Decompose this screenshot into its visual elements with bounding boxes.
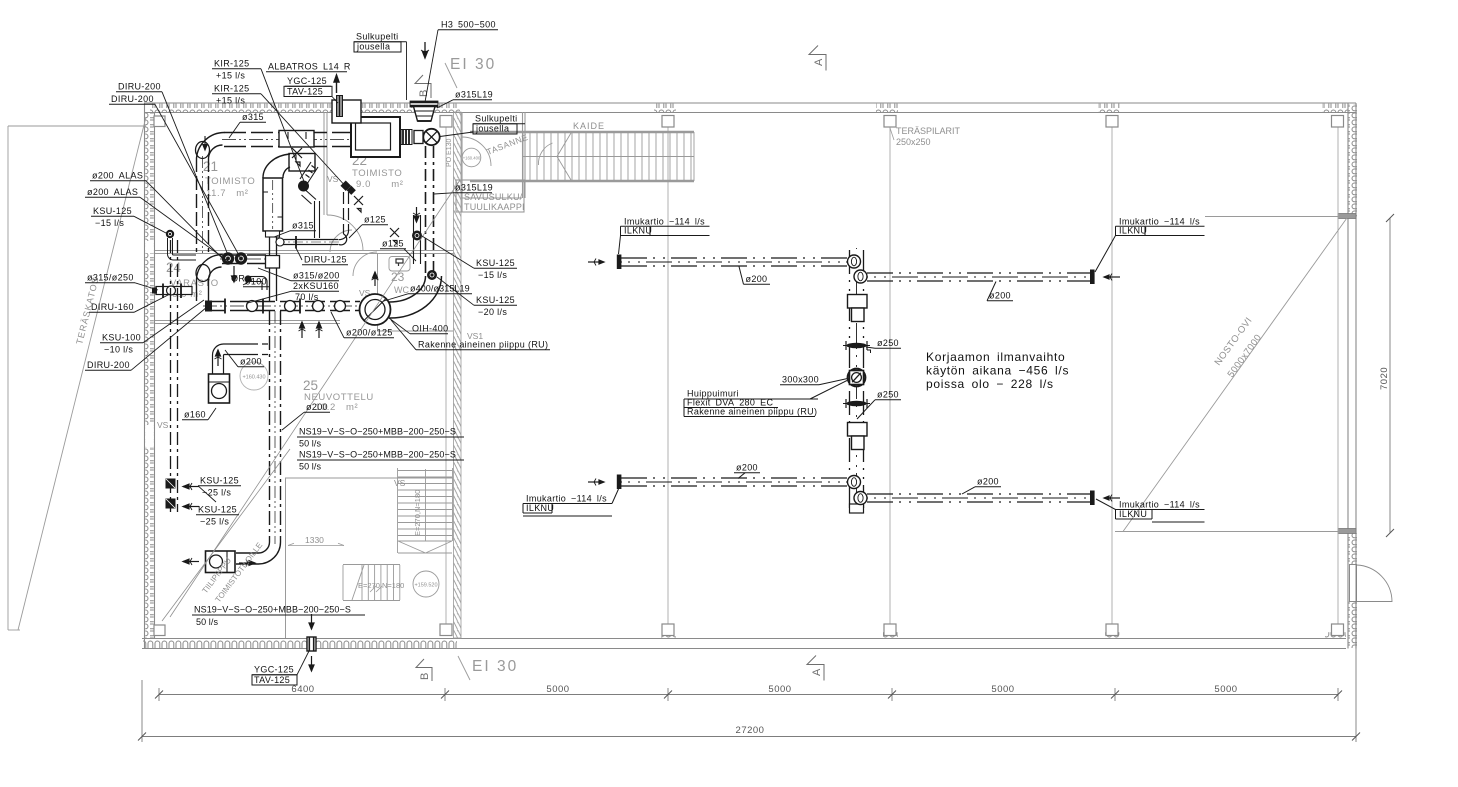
svg-text:−20 l/s: −20 l/s <box>478 307 507 317</box>
svg-text:2xKSU160: 2xKSU160 <box>293 281 339 291</box>
svg-text:50 l/s: 50 l/s <box>299 439 322 449</box>
dimension row1 line <box>159 688 1338 701</box>
ygc duct bottom crossing <box>307 637 316 651</box>
duct H2 horizontal upper <box>220 255 266 264</box>
svg-text:ø200: ø200 <box>736 463 758 473</box>
label o200/o125 <box>331 312 394 338</box>
label YGC TAV bottom <box>252 651 309 685</box>
dimension row2 <box>142 563 1356 742</box>
label 300x300 <box>780 375 848 385</box>
svg-text:Sulkupelti: Sulkupelti <box>475 114 518 124</box>
svg-text:5000: 5000 <box>991 684 1014 695</box>
elbow into big silencer <box>263 154 290 178</box>
label YGC TAV top <box>284 76 338 103</box>
label o315 top <box>229 112 266 138</box>
damper x symbols <box>292 148 399 244</box>
taper piece <box>266 256 280 269</box>
svg-text:A: A <box>811 668 823 676</box>
label ALBATROS <box>266 62 351 72</box>
korjaamon text block <box>926 350 1069 391</box>
label sulkupelti top <box>354 32 407 101</box>
svg-text:TAV-125: TAV-125 <box>287 87 323 97</box>
svg-text:−25 l/s: −25 l/s <box>202 488 231 498</box>
branch box below H1 <box>289 154 315 172</box>
svg-text:5000: 5000 <box>546 684 569 695</box>
o100 duct small <box>250 277 267 291</box>
columns top <box>154 116 1344 128</box>
elbow R5 bottom <box>339 231 349 245</box>
R4 elbow bottom <box>236 542 281 564</box>
left risers twin <box>171 240 178 512</box>
svg-text:OR: OR <box>231 274 245 284</box>
marker B top <box>415 75 431 98</box>
stair treads <box>523 132 694 181</box>
svg-text:ø200: ø200 <box>306 402 328 412</box>
airflow arrow lower-right <box>1104 495 1120 502</box>
label DIRU-200 b <box>109 94 240 257</box>
kir valve mid <box>298 181 309 192</box>
silencer upper <box>848 295 868 309</box>
svg-text:ø315/ø250: ø315/ø250 <box>87 273 134 283</box>
grid line 1112 <box>1111 127 1113 624</box>
label o315L19 mid <box>434 183 493 195</box>
svg-text:+160.430: +160.430 <box>242 375 265 381</box>
svg-text:ø315L19: ø315L19 <box>455 183 493 193</box>
marker A bottom <box>807 656 824 681</box>
big elbow to OIH <box>389 276 442 318</box>
svg-text:TOIMISTO: TOIMISTO <box>352 168 402 179</box>
label o250 lower <box>857 390 901 420</box>
label o200 equip <box>225 350 264 367</box>
roof down arrow top <box>421 42 429 58</box>
label OIH-400 <box>389 318 448 334</box>
svg-text:21: 21 <box>203 159 218 174</box>
svg-text:ø200: ø200 <box>746 274 768 284</box>
svg-text:TUULIKAAPPI: TUULIKAAPPI <box>464 202 525 212</box>
level circle 160.430 <box>240 362 268 390</box>
svg-text:300x300: 300x300 <box>782 375 819 385</box>
svg-text:VS: VS <box>327 174 339 184</box>
supply fan circle <box>423 129 439 145</box>
label NS19 a <box>297 427 464 449</box>
svg-text:ø200 ALAS: ø200 ALAS <box>92 171 143 181</box>
label H3 500-500 <box>425 20 498 103</box>
svg-text:ø315: ø315 <box>292 221 314 231</box>
svg-text:VS: VS <box>394 478 406 488</box>
room 23 label <box>391 270 409 295</box>
label KSU-125 -15 right <box>422 236 517 280</box>
label KSU-125 -20 <box>437 277 517 317</box>
svg-text:jousella: jousella <box>475 124 509 134</box>
svg-text:+15 l/s: +15 l/s <box>216 71 245 81</box>
striped branch duct <box>300 162 318 184</box>
svg-text:A: A <box>813 58 825 66</box>
label imukartio lower-right <box>1096 499 1205 522</box>
duct riser R2 from fan <box>426 146 434 277</box>
svg-text:jousella: jousella <box>356 42 390 52</box>
svg-text:DIRU-160: DIRU-160 <box>91 302 134 312</box>
airflow arrow upper-left <box>588 259 604 266</box>
svg-text:ø160: ø160 <box>184 410 206 420</box>
damper upper <box>847 343 867 349</box>
svg-text:ILKNU: ILKNU <box>1119 226 1147 236</box>
svg-text:−15 l/s: −15 l/s <box>478 270 507 280</box>
svg-text:70 l/s: 70 l/s <box>295 292 319 302</box>
H3 fittings <box>205 299 346 314</box>
tap circle on stack <box>276 238 284 246</box>
svg-text:H3 500−500: H3 500−500 <box>441 20 496 30</box>
duct end cap upper-right <box>1090 270 1095 285</box>
svg-text:−25 l/s: −25 l/s <box>200 517 229 527</box>
ygc arrows <box>309 614 314 671</box>
fan box bottom <box>206 551 236 573</box>
svg-text:ø125: ø125 <box>364 215 386 225</box>
svg-text:E=270,N=180: E=270,N=180 <box>413 490 422 536</box>
label DIRU-125 <box>296 248 348 265</box>
svg-text:ø250: ø250 <box>877 338 899 348</box>
wall right corrugated top <box>1348 103 1356 649</box>
label rakenne piippu left <box>391 320 550 350</box>
1330 dim <box>288 545 344 547</box>
svg-text:DIRU-200: DIRU-200 <box>111 94 154 104</box>
duct y242 horizontal <box>275 240 340 245</box>
door right wall <box>1350 565 1357 602</box>
grid line 890 <box>889 127 891 624</box>
svg-text:B: B <box>418 90 430 97</box>
flow arrows up pair <box>299 322 323 338</box>
svg-text:Sulkupelti: Sulkupelti <box>356 32 399 42</box>
svg-text:ILKNU: ILKNU <box>526 503 554 513</box>
label o125 a <box>349 215 388 239</box>
label o125 b <box>380 239 416 262</box>
label o200 ALAS a <box>90 171 222 259</box>
stack below silencer <box>270 231 277 301</box>
flange duct y242 <box>295 236 297 249</box>
svg-text:6400: 6400 <box>291 684 314 695</box>
wc walls <box>377 253 453 331</box>
door arc office22 <box>330 230 352 252</box>
supply valves pair black <box>222 252 234 264</box>
svg-text:KAIDE: KAIDE <box>573 121 605 131</box>
wall bottom band <box>142 639 1346 649</box>
elbow E2 with ellipse <box>197 255 223 281</box>
svg-text:9.0 m²: 9.0 m² <box>356 179 403 190</box>
label DIRU-200 c <box>85 307 207 370</box>
albatros up arrow <box>334 75 339 93</box>
fanbox arrows <box>183 558 255 567</box>
svg-text:ILKNU: ILKNU <box>1119 509 1147 519</box>
svg-text:−15 l/s: −15 l/s <box>95 218 124 228</box>
valve KSU-20 <box>427 270 437 280</box>
label huippuimuri block <box>684 381 847 417</box>
nosto-ovi lintel marks <box>1338 214 1356 219</box>
roof hood H3 <box>411 102 438 122</box>
svg-text:Imukartio −114 l/s: Imukartio −114 l/s <box>526 494 607 504</box>
label o315/o200 block <box>248 268 340 303</box>
silencer box on H1 <box>279 131 314 148</box>
label KSU-125 -15 left <box>91 206 166 233</box>
neck piece under silencer <box>266 231 280 237</box>
tee junction lower-left <box>848 476 861 489</box>
chimney bottom end piece <box>850 504 864 513</box>
AHU unit room22 <box>351 117 400 157</box>
svg-text:24: 24 <box>166 260 182 275</box>
duct H1 horizontal o315 <box>222 133 351 147</box>
svg-text:ILKNU: ILKNU <box>624 226 652 236</box>
svg-text:5000: 5000 <box>768 684 791 695</box>
small duct from dot <box>168 238 197 260</box>
black dampers wall squares <box>166 479 176 489</box>
svg-text:WC: WC <box>394 285 409 295</box>
up arrow on equip duct <box>215 350 222 366</box>
thin duct from valve <box>302 191 320 239</box>
svg-text:OIH-400: OIH-400 <box>412 324 448 334</box>
label o200 upper-left <box>739 267 770 285</box>
svg-text:ø315L19: ø315L19 <box>455 90 493 100</box>
grid line 1338 <box>1337 127 1339 624</box>
label imukartio upper-left <box>619 217 710 255</box>
svg-text:ø200: ø200 <box>977 477 999 487</box>
stair room walls <box>285 478 453 638</box>
svg-text:YGC-125: YGC-125 <box>254 665 294 675</box>
silencer lower <box>848 423 868 437</box>
roof fan huippuimuri <box>848 369 866 387</box>
svg-text:ø100: ø100 <box>245 277 267 287</box>
wall between offices <box>323 112 325 215</box>
svg-text:50 l/s: 50 l/s <box>299 462 322 472</box>
level circle 159.520 <box>413 571 439 597</box>
label NS19 b <box>297 450 464 472</box>
tee junction lower-right <box>854 492 867 505</box>
label o315L19 top right <box>437 90 493 109</box>
duct end cap lower-right <box>1090 491 1095 506</box>
ksu arrows left pair <box>183 483 199 510</box>
label o200 upper-right <box>987 282 1013 301</box>
label o315/o250 <box>85 273 158 291</box>
label o315 mid <box>274 221 316 238</box>
OIH-400 roof terminal <box>360 294 391 325</box>
duct run lower-left o200 <box>621 478 849 486</box>
terraskatos canopy outline <box>8 117 146 630</box>
svg-text:VS: VS <box>157 420 169 430</box>
room 25 label <box>303 378 374 413</box>
wall top band <box>144 103 1356 113</box>
svg-text:YGC-125: YGC-125 <box>287 76 327 86</box>
svg-text:KSU-125: KSU-125 <box>198 505 237 515</box>
svg-text:Rakenne aineinen piippu (RU): Rakenne aineinen piippu (RU) <box>418 340 548 350</box>
svg-text:NS19−V−S−O−250+MBB−200−250−S: NS19−V−S−O−250+MBB−200−250−S <box>299 450 456 460</box>
svg-text:KSU-125: KSU-125 <box>476 258 515 268</box>
diagonal line2 <box>170 180 460 617</box>
svg-text:TAV-125: TAV-125 <box>254 675 290 685</box>
marker A top <box>809 46 826 71</box>
riser R5 o125 <box>344 192 349 234</box>
dimension 7020 vertical <box>1389 218 1391 533</box>
svg-text:KSU-100: KSU-100 <box>102 333 141 343</box>
valve KSU-15 <box>412 231 422 241</box>
tee junction upper-right <box>854 270 867 283</box>
tasanne level circle <box>462 148 481 167</box>
svg-text:ø200/ø125: ø200/ø125 <box>346 328 393 338</box>
svg-text:11.7 m²: 11.7 m² <box>206 188 249 199</box>
svg-text:KSU-125: KSU-125 <box>200 476 239 486</box>
grid line 446 <box>445 127 447 624</box>
label o400/o315L19 <box>384 284 472 302</box>
diagonal line3 <box>162 449 290 621</box>
svg-text:1330: 1330 <box>305 535 324 545</box>
svg-text:250x250: 250x250 <box>896 137 931 147</box>
svg-text:TERÄSPILARIT: TERÄSPILARIT <box>896 126 961 136</box>
svg-text:−10 l/s: −10 l/s <box>104 345 133 355</box>
svg-text:KIR-125: KIR-125 <box>214 84 249 94</box>
left wall crossing stub <box>152 284 192 299</box>
wall corrugation bumps at columns <box>654 104 676 113</box>
label KSU-100 <box>100 300 204 355</box>
lower flight <box>343 565 400 601</box>
vestibule door arc <box>462 137 491 166</box>
svg-text:KIR-125: KIR-125 <box>214 59 249 69</box>
duct run upper-right o200 <box>867 273 1092 281</box>
down arrow right of wc <box>413 207 420 222</box>
svg-text:DIRU-200: DIRU-200 <box>118 82 161 92</box>
svg-text:TOIMISTO: TOIMISTO <box>205 176 255 187</box>
equip box room25wall <box>209 374 230 403</box>
elbow top R1 <box>197 132 225 158</box>
chimney duct vertical <box>850 248 864 510</box>
flex connector striped <box>401 130 412 145</box>
label o160 <box>182 408 216 420</box>
svg-text:Korjaamon ilmanvaihto: Korjaamon ilmanvaihto <box>926 350 1065 364</box>
svg-text:KSU-125: KSU-125 <box>93 206 132 216</box>
door arc office21 <box>327 215 363 251</box>
duct from equip box up <box>213 344 269 374</box>
toilet <box>389 257 410 272</box>
label KIR-125 b <box>212 84 348 190</box>
door arc room21 <box>353 252 377 276</box>
svg-text:ø200: ø200 <box>240 357 262 367</box>
svg-text:DIRU-125: DIRU-125 <box>304 255 347 265</box>
nosto-ovi lines <box>1115 217 1348 532</box>
label o200 lower-left <box>734 463 760 479</box>
label NS19 c <box>192 605 365 628</box>
svg-text:+160.400: +160.400 <box>463 156 481 161</box>
svg-text:ø125: ø125 <box>382 239 404 249</box>
svg-text:ø200 ALAS: ø200 ALAS <box>87 187 138 197</box>
svg-text:50 l/s: 50 l/s <box>196 617 219 627</box>
svg-text:E=270,N=180: E=270,N=180 <box>358 581 404 590</box>
label DIRU-200 a <box>116 82 228 256</box>
svg-text:+159.520: +159.520 <box>414 583 437 589</box>
svg-text:käytön aikana −456 l/s: käytön aikana −456 l/s <box>926 364 1069 378</box>
svg-text:poissa olo − 228 l/s: poissa olo − 228 l/s <box>926 377 1054 391</box>
svg-text:ø250: ø250 <box>877 390 899 400</box>
svg-text:7020: 7020 <box>1379 367 1390 390</box>
marker B bottom <box>416 659 432 681</box>
duct end cap upper-left <box>617 255 622 270</box>
up arrow wc <box>372 272 379 286</box>
wall bottom corrugation <box>143 639 457 648</box>
duct riser o125 parallel <box>414 215 421 264</box>
duct run upper-left o200 <box>621 258 849 266</box>
svg-text:ø315/ø200: ø315/ø200 <box>293 271 340 281</box>
tee junction upper-left <box>848 255 861 268</box>
riser R4 twin <box>270 311 281 544</box>
upper flight <box>398 468 453 553</box>
R1 lower stub to H3 <box>197 280 209 301</box>
room 24 label <box>166 260 219 300</box>
ksu tap dot left <box>166 230 174 238</box>
airflow arrow lower-left <box>588 479 604 486</box>
duct run lower-right o200 <box>867 494 1092 502</box>
down arrow under valves <box>232 266 237 282</box>
wall top corrugation left section <box>150 104 460 113</box>
svg-text:PO E130: PO E130 <box>446 138 453 167</box>
albatros unit rect <box>332 100 361 123</box>
ygc roof duct top crossing <box>336 95 343 117</box>
columns bottom <box>154 624 1344 636</box>
dimension row1 ticks <box>155 691 1342 699</box>
svg-text:SAVUSULKU/: SAVUSULKU/ <box>464 192 523 202</box>
small down arrow at elbow <box>203 136 207 150</box>
room 21 label <box>203 159 255 199</box>
svg-text:NS19−V−S−O−250+MBB−200−250−S: NS19−V−S−O−250+MBB−200−250−S <box>299 427 456 437</box>
svg-text:EI 30: EI 30 <box>472 658 518 675</box>
damper lower <box>847 401 867 407</box>
svg-text:ø200: ø200 <box>989 291 1011 301</box>
svg-text:ø315: ø315 <box>242 112 264 122</box>
round connector ellipse R1 <box>196 142 210 159</box>
label imukartio upper-right <box>1095 217 1205 273</box>
duct end cap lower-left <box>617 475 622 490</box>
stair rails <box>470 131 694 134</box>
svg-text:DIRU-200: DIRU-200 <box>87 360 130 370</box>
label KIR-125 a <box>212 59 305 185</box>
room 22 label <box>352 153 403 190</box>
KIR valve dots <box>340 180 351 191</box>
svg-text:ALBATROS L14 R: ALBATROS L14 R <box>268 62 351 72</box>
label sulkupelti 2 <box>440 114 525 137</box>
svg-text:+15 l/s: +15 l/s <box>216 96 245 106</box>
label o200 lower-right <box>962 477 1001 495</box>
svg-text:EI 30: EI 30 <box>450 56 496 73</box>
grid line 668 <box>667 127 669 624</box>
main run H3 horizontal <box>203 302 360 311</box>
label DIRU-160 <box>89 294 170 312</box>
label KSU-125 -25 a <box>198 476 241 503</box>
label o200 room25 <box>282 402 330 430</box>
label KSU-125 -25 b <box>196 505 239 527</box>
svg-text:NS19−V−S−O−250+MBB−200−250−S: NS19−V−S−O−250+MBB−200−250−S <box>194 605 351 615</box>
label o100 <box>243 277 269 287</box>
label o200 ALAS b <box>85 187 232 264</box>
vestibule walls <box>456 112 525 212</box>
dimension row1 labels <box>291 684 1237 695</box>
svg-text:27200: 27200 <box>736 725 765 736</box>
hatched wall x457 <box>454 112 462 638</box>
riser duct R1 vertical <box>197 156 209 254</box>
svg-text:Imukartio −114 l/s: Imukartio −114 l/s <box>1119 500 1200 510</box>
svg-text:B: B <box>419 673 431 680</box>
svg-text:5000: 5000 <box>1214 684 1237 695</box>
label o250 upper <box>866 338 901 348</box>
wall room24 bottom <box>155 321 340 324</box>
svg-text:23: 23 <box>391 270 405 284</box>
big silencer vertical <box>263 178 283 231</box>
office corridor wall <box>155 251 453 254</box>
label imukartio lower-left <box>523 489 619 516</box>
svg-text:ø400/ø315L19: ø400/ø315L19 <box>410 284 470 294</box>
svg-text:25: 25 <box>303 378 318 393</box>
